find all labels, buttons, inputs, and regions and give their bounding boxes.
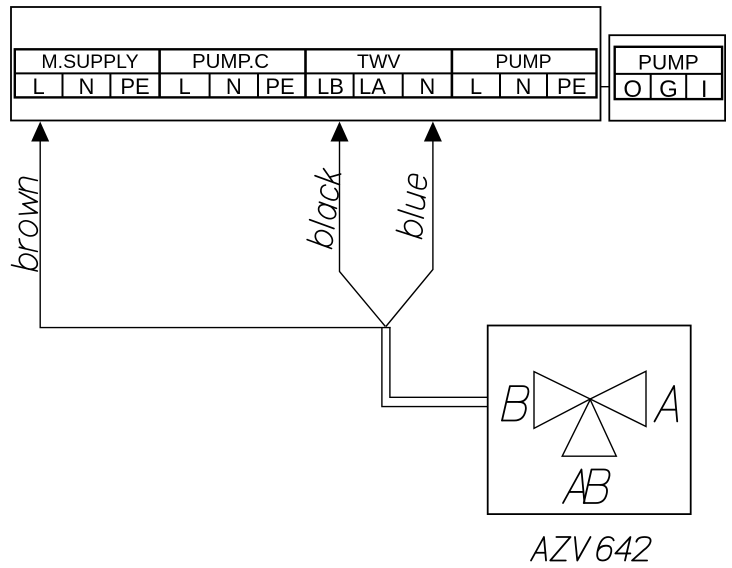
label B — [502, 386, 531, 420]
terminal block outer box — [11, 7, 601, 121]
valve symbol: bottom triangle (port AB) — [562, 400, 616, 457]
section divider PUMP.C/TWV — [304, 49, 307, 97]
arrow blue wire — [424, 122, 442, 142]
svg-text:N: N — [516, 74, 532, 99]
pump table border — [615, 47, 722, 99]
label AB — [563, 470, 612, 504]
svg-text:PUMP: PUMP — [495, 51, 551, 73]
valve symbol: left triangle (port B) — [534, 372, 590, 429]
twin cable to valve: outer conductor — [382, 328, 488, 407]
svg-text:L: L — [470, 74, 482, 99]
section divider TWV/PUMP — [451, 49, 454, 97]
arrow black wire — [331, 122, 349, 142]
svg-text:N: N — [419, 74, 435, 99]
svg-text:G: G — [659, 76, 678, 103]
pump cell divider G/I — [685, 74, 687, 99]
label black — [307, 165, 340, 248]
caption AZV 642 — [531, 537, 653, 561]
svg-text:M.SUPPLY: M.SUPPLY — [41, 51, 138, 73]
twin cable to valve: inner conductor — [390, 328, 488, 398]
svg-text:N: N — [226, 74, 242, 99]
terminal strip row divider — [15, 72, 597, 74]
svg-text:N: N — [78, 74, 94, 99]
label blue — [396, 170, 426, 238]
arrow brown wire — [31, 122, 49, 142]
valve symbol: right triangle (port A) — [590, 371, 646, 426]
label brown — [12, 175, 38, 271]
svg-text:I: I — [701, 76, 708, 103]
valve box AZV 642 — [488, 326, 691, 515]
terminal strip table border — [15, 49, 597, 97]
svg-text:PE: PE — [120, 74, 149, 99]
svg-text:O: O — [623, 76, 642, 103]
svg-text:L: L — [178, 74, 190, 99]
svg-text:PE: PE — [557, 74, 586, 99]
section divider M.SUPPLY/PUMP.C — [158, 49, 161, 97]
pump connector box — [609, 35, 725, 121]
label A — [655, 386, 686, 422]
svg-text:LA: LA — [359, 74, 386, 99]
svg-text:PUMP.C: PUMP.C — [192, 50, 269, 73]
wire brown (vertical + horizontal to junction) — [40, 138, 391, 328]
svg-text:L: L — [32, 74, 44, 99]
wire black (vertical + diagonal to junction) — [340, 138, 386, 327]
wire blue (vertical + diagonal to junction) — [386, 138, 433, 327]
svg-text:TWV: TWV — [357, 51, 400, 73]
cell dividers row 2 — [63, 73, 548, 97]
svg-text:PUMP: PUMP — [638, 51, 699, 74]
svg-text:PE: PE — [265, 74, 294, 99]
wire link between boxes — [601, 86, 610, 88]
svg-text:LB: LB — [317, 74, 344, 99]
pump cell divider O/G — [650, 74, 652, 99]
pump table row divider — [615, 73, 722, 75]
